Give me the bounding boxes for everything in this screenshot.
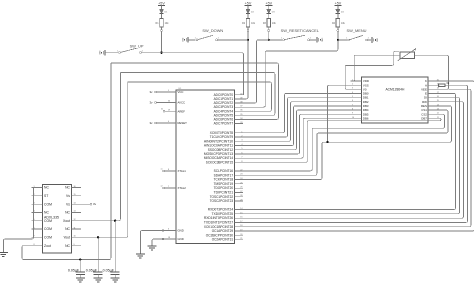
svg-text:2: 2 <box>368 38 369 40</box>
ADXL pin 3 COM <box>32 203 43 205</box>
svg-text:0.05µF: 0.05µF <box>103 268 115 272</box>
wire Yout <box>81 82 128 237</box>
svg-text:13: 13 <box>437 108 439 110</box>
wire DB3 PB3 <box>243 106 350 146</box>
MCU pin 29 AREF <box>167 110 177 112</box>
svg-text:AVCC: AVCC <box>178 101 186 105</box>
crystal pin XTAL1 <box>163 170 165 172</box>
svg-text:17: 17 <box>437 92 439 94</box>
wire DB0 PB0 <box>243 93 350 132</box>
MCU pin 17 TXD1INT1PCINT27 <box>234 221 243 223</box>
ground <box>136 253 145 255</box>
svg-text:NC: NC <box>65 227 70 231</box>
svg-text:13: 13 <box>74 211 76 213</box>
wire COM bus <box>3 188 33 253</box>
svg-text:NC: NC <box>65 186 70 190</box>
svg-text:1: 1 <box>346 38 347 40</box>
svg-text:1: 1 <box>195 38 196 40</box>
svg-text:14: 14 <box>437 104 439 106</box>
wire DB7 PB7 <box>243 118 441 162</box>
MCU pin 18 GND <box>167 238 177 240</box>
svg-text:15: 15 <box>74 194 76 196</box>
capacitor C2 0.05uF <box>114 220 116 222</box>
LCD pin 15 RW <box>428 101 439 103</box>
MCU pin 40 ADC0PCINT0 <box>234 94 243 96</box>
svg-text:GND: GND <box>178 237 184 241</box>
svg-text:GND: GND <box>321 38 323 43</box>
LCD pin 11 DB7 <box>428 117 439 119</box>
wire SW_DOWN to ADC1 <box>243 40 248 99</box>
svg-text:12: 12 <box>74 219 76 221</box>
svg-text:15: 15 <box>437 100 439 102</box>
wire Xout <box>81 73 120 221</box>
MCU pin 4 AIN1OC0APCINT11 <box>234 144 243 146</box>
LCD pin 20 K <box>428 80 439 82</box>
wire DB2 PB2 <box>243 102 350 141</box>
ADXL pin 1 NC <box>32 187 43 189</box>
MCU pin 1 XCK0T0PCINT8 <box>234 132 243 134</box>
svg-text:XTAL1: XTAL1 <box>178 169 187 173</box>
svg-text:10: 10 <box>352 117 354 119</box>
ground <box>316 37 318 43</box>
ADXL pin 13 NC <box>72 211 82 213</box>
wire RW PD2 <box>243 102 464 218</box>
wire Y to ADC4 <box>128 82 272 111</box>
svg-text:NC: NC <box>44 211 49 215</box>
svg-text:RESET: RESET <box>178 121 188 125</box>
svg-text:XTAL2: XTAL2 <box>178 186 187 190</box>
ADXL pin 2 ST <box>32 195 43 197</box>
wire MCU GND2 <box>152 239 167 246</box>
svg-text:ACM12864H: ACM12864H <box>385 88 404 92</box>
svg-text:COM: COM <box>44 219 52 223</box>
MCU pin 16 RXD1INT0PCINT26 <box>234 217 243 219</box>
LCD pin 4 DB0 <box>350 92 361 94</box>
svg-text:x2: x2 <box>161 185 163 187</box>
MCU pin 7 MISOOC3APCINT14 <box>234 157 243 159</box>
svg-text:2: 2 <box>142 50 143 52</box>
wire X to ADC5 <box>120 73 275 116</box>
MCU pin 5 SSOC0BPCINT12 <box>234 149 243 151</box>
svg-text:16: 16 <box>437 96 439 98</box>
MCU pin 5 VCC <box>167 91 177 93</box>
wire pot right to VEE <box>415 55 449 89</box>
ADXL pin 14 Vs <box>72 203 82 205</box>
wire DB5 PB5 <box>243 114 350 154</box>
svg-text:GND: GND <box>376 38 378 43</box>
svg-text:AREF: AREF <box>178 109 186 113</box>
resistor R1 10k <box>160 19 164 28</box>
MCU pin 35 ADC5PCINT5 <box>234 114 243 116</box>
svg-text:6: 6 <box>168 229 169 231</box>
ground <box>187 37 189 43</box>
svg-text:NC: NC <box>65 211 70 215</box>
MCU pin 30 AVCC <box>167 102 177 104</box>
wire RES PC2 <box>243 106 452 180</box>
svg-text:COM: COM <box>44 236 52 240</box>
ADXL pin 6 COM <box>32 228 43 230</box>
diode D2 <box>247 8 249 9</box>
MCU pin 34 ADC6PCINT6 <box>234 118 243 120</box>
wire SW_UP to ADC0 <box>162 53 244 95</box>
MCU pin 23 SDAPCINT17 <box>234 174 243 176</box>
LCD pin 19 A <box>428 84 439 86</box>
LCD pin 7 DB3 <box>350 105 361 107</box>
LCD pin 10 DB6 <box>350 117 361 119</box>
svg-text:12: 12 <box>437 113 439 115</box>
resistor R2 10k <box>246 19 250 28</box>
svg-text:Xout: Xout <box>63 219 70 223</box>
svg-text:Yout: Yout <box>63 236 70 240</box>
MCU pin 25 TMSPCINT19 <box>234 183 243 185</box>
svg-text:2: 2 <box>218 38 219 40</box>
capacitor C3 0.05uF <box>97 236 99 238</box>
LCD pin 5 DB1 <box>350 97 361 99</box>
ADXL pin 8 Zout <box>32 245 43 247</box>
MCU pin 38 ADC2PCINT2 <box>234 102 243 104</box>
MCU pin 33 ADC7PCINT7 <box>234 123 243 125</box>
svg-text:Vs: Vs <box>66 202 70 206</box>
wire DI PD1 <box>243 98 460 214</box>
MCU pin 4 RESET <box>167 122 177 124</box>
svg-text:NC: NC <box>44 186 49 190</box>
crystal pin XTAL2 <box>163 187 165 189</box>
svg-text:7: 7 <box>168 186 169 188</box>
svg-text:11: 11 <box>437 117 439 119</box>
svg-text:18: 18 <box>168 237 170 239</box>
svg-text:32: 32 <box>161 109 163 111</box>
svg-text:30: 30 <box>168 101 170 103</box>
svg-text:COM: COM <box>44 202 52 206</box>
svg-text:Vs: Vs <box>66 194 70 198</box>
ADXL pin 9 NC <box>72 245 82 247</box>
LCD pin 14 RES <box>428 105 439 107</box>
svg-text:4: 4 <box>168 121 169 123</box>
svg-text:+5V: +5V <box>158 1 165 5</box>
ground <box>0 252 8 254</box>
svg-text:SW_MENU: SW_MENU <box>347 28 367 33</box>
LCD pin 12 CS2 <box>428 113 439 115</box>
MCU pin 2 T1CLKOPCINT9 <box>234 136 243 138</box>
op-amp U3 LCD ACM12864H box <box>362 77 428 123</box>
MCU pin 14 RXD0T3PCINT24 <box>234 209 243 211</box>
svg-text:14: 14 <box>74 202 76 204</box>
svg-text:ST: ST <box>44 194 48 198</box>
svg-text:0.05µF: 0.05µF <box>86 268 98 272</box>
MCU pin 19 OC1APCINT29 <box>234 230 243 232</box>
MCU pin 6 MOSIICP3PCINT13 <box>234 153 243 155</box>
wire Zout <box>22 63 111 260</box>
LCD pin 9 DB5 <box>350 113 361 115</box>
svg-text:+5V: +5V <box>245 1 252 5</box>
MCU pin 8 XTAL1 <box>167 170 177 172</box>
LCD pin 6 DB2 <box>350 101 361 103</box>
MCU pin 18 XCK1OC1BPCINT28 <box>234 226 243 228</box>
resistor R5 3k <box>438 84 441 86</box>
svg-text:6: 6 <box>352 100 353 102</box>
LCD pin 17 E <box>428 92 439 94</box>
MCU pin 28 TOSC1PCINT22 <box>234 196 243 198</box>
MCU pin 36 ADC4PCINT4 <box>234 110 243 112</box>
wire DB1 PB1 <box>243 98 350 137</box>
svg-text:5: 5 <box>352 96 353 98</box>
wire pot left to VDD <box>354 55 400 81</box>
wire CS2 PC0 <box>243 114 445 171</box>
svg-text:3: 3 <box>352 88 353 90</box>
svg-text:8: 8 <box>352 108 353 110</box>
svg-text:ADC7PCINT7: ADC7PCINT7 <box>214 122 234 126</box>
svg-text:5: 5 <box>168 90 169 92</box>
resistor R4 10k <box>336 19 340 28</box>
wire V0 to wiper <box>345 51 399 89</box>
svg-text:16: 16 <box>74 186 76 188</box>
svg-text:TOSC2PCINT23: TOSC2PCINT23 <box>210 199 234 203</box>
svg-text:DB7: DB7 <box>421 116 427 120</box>
wire MCU GND1 <box>140 231 166 255</box>
wire DB6 PB6 <box>243 118 350 158</box>
LCD pin 18 VEE <box>428 88 439 90</box>
MCU pin 24 TCKPCINT18 <box>234 179 243 181</box>
svg-text:Zout: Zout <box>44 244 51 248</box>
MCU pin 39 ADC1PCINT1 <box>234 98 243 100</box>
op-amp U2 ADXL335 box <box>43 184 72 253</box>
ADXL pin 4 NC <box>32 211 43 213</box>
LCD pin 13 CS1 <box>428 109 439 111</box>
ground <box>94 277 103 279</box>
svg-text:NC: NC <box>65 244 70 248</box>
MCU pin 15 TXD0PCINT25 <box>234 213 243 215</box>
diode D1 <box>161 8 163 9</box>
MCU pin 29 TOSC2PCINT23 <box>234 200 243 202</box>
MCU pin 27 TDIPCINT21 <box>234 191 243 193</box>
svg-text:1: 1 <box>117 50 118 52</box>
svg-text:1: 1 <box>352 79 353 81</box>
wire DB4 PB4 <box>243 110 350 150</box>
MCU pin 21 OC2APCINT31 <box>234 239 243 241</box>
LCD pin 1 VDD <box>350 80 361 82</box>
wire VSS join <box>328 85 351 142</box>
wire SW_MENU to ADC3 <box>243 40 338 107</box>
svg-text:2: 2 <box>310 38 311 40</box>
svg-text:0.05µF: 0.05µF <box>68 268 80 272</box>
svg-text:+5V: +5V <box>335 1 342 5</box>
svg-text:GND: GND <box>182 37 184 42</box>
MCU pin 22 SCLPCINT16 <box>234 170 243 172</box>
svg-text:8: 8 <box>34 244 35 246</box>
svg-text:20: 20 <box>437 79 439 81</box>
diode D3 <box>268 8 270 9</box>
ground <box>371 37 373 43</box>
ADXL pin 15 Vs <box>72 195 82 197</box>
net label 3v ADXL Vs <box>81 203 90 205</box>
svg-text:11: 11 <box>74 227 76 229</box>
MCU pin 26 TDOPCINT20 <box>234 187 243 189</box>
diode D4 <box>337 8 339 9</box>
ground <box>148 245 157 247</box>
AREF pin glyph <box>163 110 165 112</box>
wire CS1 PC1 <box>243 110 448 175</box>
MCU pin 20 OC2BICPPCINT30 <box>234 234 243 236</box>
ground <box>76 277 85 279</box>
MCU pin 8 SCKOC3BPCINT15 <box>234 161 243 163</box>
svg-text:7: 7 <box>352 104 353 106</box>
LCD pin 2 VSS <box>350 84 361 86</box>
wire VEE PD4 <box>243 89 471 226</box>
wire E PD0 <box>243 93 456 209</box>
MCU pin 7 XTAL2 <box>167 187 177 189</box>
svg-text:SW_DOWN: SW_DOWN <box>202 28 223 33</box>
svg-text:4: 4 <box>352 92 353 94</box>
capacitor C1 0.05uF <box>79 258 81 260</box>
potentiometer RV1 <box>400 52 415 59</box>
ADXL pin 5 COM <box>32 220 43 222</box>
svg-text:DB6: DB6 <box>363 116 369 120</box>
ADXL pin 11 NC <box>72 228 82 230</box>
resistor R3 10k <box>267 19 271 28</box>
svg-text:1: 1 <box>281 38 282 40</box>
svg-text:GND: GND <box>99 50 101 55</box>
svg-text:9: 9 <box>352 113 353 115</box>
MCU pin 3 AIN0INT2PCINT10 <box>234 140 243 142</box>
ground <box>111 277 120 279</box>
LCD pin 3 V0 <box>350 88 361 90</box>
LCD pin 16 DI <box>428 97 439 99</box>
svg-text:OC2APCINT31: OC2APCINT31 <box>212 238 234 242</box>
MCU pin 6 GND <box>167 230 177 232</box>
wire A to PD3 <box>243 85 468 222</box>
MCU pin 37 ADC3PCINT3 <box>234 106 243 108</box>
wire K backlight <box>243 81 474 231</box>
ADXL pin 12 Xout <box>72 220 82 222</box>
ADXL pin 7 COM <box>32 236 43 238</box>
wire SW_RESET to ADC2 <box>243 40 269 103</box>
svg-text:29: 29 <box>168 109 170 111</box>
svg-text:9: 9 <box>74 244 75 246</box>
op-amp U1 MCU ATMEGA1284 box <box>176 90 234 244</box>
svg-text:COM: COM <box>44 227 52 231</box>
svg-text:GND: GND <box>178 229 184 233</box>
LCD pin 8 DB4 <box>350 109 361 111</box>
svg-text:8: 8 <box>168 169 169 171</box>
ADXL pin 16 NC <box>72 187 82 189</box>
ground <box>104 50 106 56</box>
svg-text:VCC: VCC <box>178 90 184 94</box>
svg-text:SCKOC3BPCINT15: SCKOC3BPCINT15 <box>206 160 234 164</box>
ADXL pin 10 Yout <box>72 236 82 238</box>
svg-text:+5V: +5V <box>265 1 272 5</box>
wire Z to ADC6 <box>111 63 279 119</box>
svg-text:x1: x1 <box>161 168 163 170</box>
svg-text:2: 2 <box>352 84 353 86</box>
svg-text:SW_RESET/CANCEL: SW_RESET/CANCEL <box>281 28 320 33</box>
svg-text:10: 10 <box>74 236 76 238</box>
svg-text:18: 18 <box>437 88 439 90</box>
